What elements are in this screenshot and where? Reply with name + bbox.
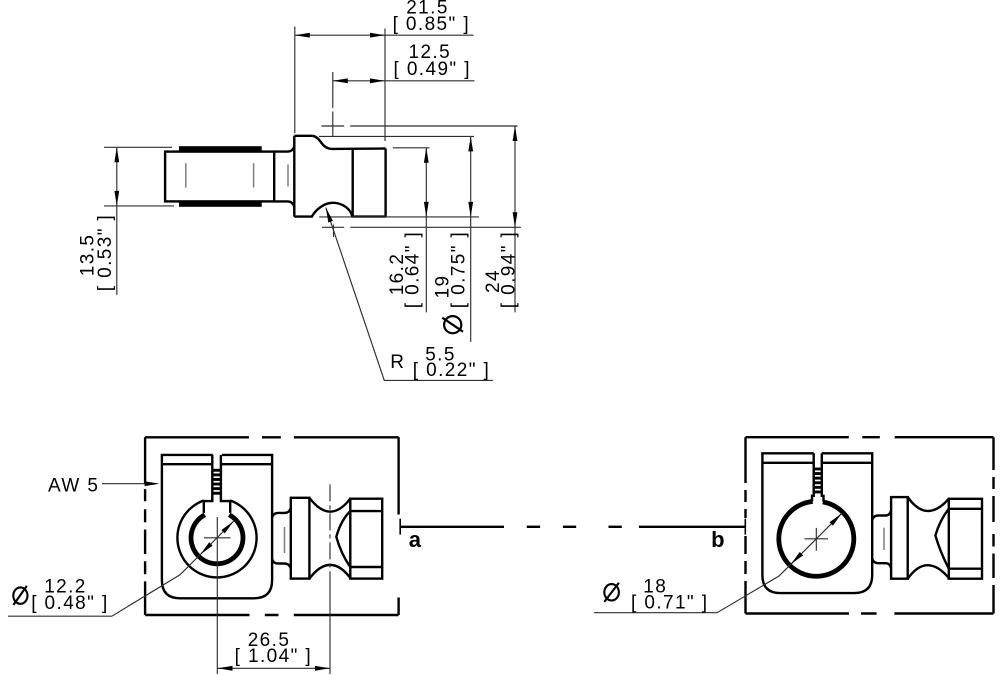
- top view: cam separator line: [352, 149, 354, 217]
- right view: phantom border right edge: [992, 437, 994, 613]
- section line a-b: dash 3: [609, 526, 622, 528]
- section line a-b: left tick: [399, 519, 401, 535]
- right view plug: neck top edge: [872, 511, 891, 520]
- right view: slot right wall: [822, 453, 824, 501]
- left view plug: vertical centerline (dashed): [329, 484, 331, 580]
- dim 16.2: dimension line: [425, 148, 427, 313]
- dim 24: down arrow: [513, 212, 518, 227]
- svg-text:a: a: [409, 527, 422, 552]
- right view plug: block chamfer line bottom: [949, 568, 982, 570]
- dim R5.5: arc centre tick: [333, 225, 335, 238]
- svg-text:[ 0.53" ]: [ 0.53" ]: [95, 214, 116, 291]
- dim 12.5: right arrow: [370, 78, 385, 83]
- top view: neck bottom edge: [274, 201, 294, 207]
- label AW 5: leader line: [102, 483, 152, 485]
- dim 18: upper-right arrow: [830, 513, 842, 525]
- dim 13.5: up arrow: [114, 147, 119, 162]
- left view: housing outline: [162, 455, 272, 598]
- dim 16.2/19: bottom extension line: [319, 216, 479, 218]
- right view: screw thread marks in slot: [814, 468, 820, 471]
- dim 16.2: up arrow: [424, 148, 429, 163]
- svg-text:[ 0.48" ]: [ 0.48" ]: [31, 593, 108, 614]
- top view: shaft surface tick 1: [185, 163, 187, 187]
- right view: phantom border top edge: [746, 436, 994, 438]
- svg-text:[ 0.49" ]: [ 0.49" ]: [393, 59, 470, 80]
- right view: bore center cross vertical: [815, 528, 817, 551]
- left view: slot right wall: [221, 455, 230, 513]
- dim R5.5: arrow: [326, 208, 333, 223]
- section line a-b: right solid segment: [639, 526, 745, 528]
- dim 19: down arrow: [468, 202, 473, 217]
- top view: knurl band bottom: [179, 201, 262, 206]
- dim 21.5: left extension line: [294, 27, 296, 134]
- left view: phantom border bottom edge: [145, 614, 399, 616]
- left view plug: neck bottom edge: [272, 559, 291, 568]
- svg-text:R: R: [390, 352, 405, 373]
- label AW 5: arrow: [145, 481, 160, 486]
- top view: flange top edge: [294, 135, 312, 137]
- right view plug: spool top concave arc: [908, 497, 949, 511]
- right view plug: right block: [949, 499, 982, 579]
- section line a-b: left solid segment: [400, 526, 504, 528]
- section line a-b: dash 1: [527, 526, 540, 528]
- dim 12.5: dimension line: [333, 80, 475, 82]
- right view: bore circle 18 (thick, gap at slot): [779, 501, 854, 576]
- top view: neck surface tick: [287, 165, 289, 187]
- svg-text:[ 0.94" ]: [ 0.94" ]: [499, 231, 520, 308]
- svg-text:[ 0.75" ]: [ 0.75" ]: [448, 231, 469, 308]
- right view plug: spool bottom concave arc: [908, 565, 949, 579]
- left view: slot left wall: [204, 455, 213, 513]
- top view: shaft body: [165, 152, 274, 202]
- diameter symbol for 16.2/19/24 group: [444, 316, 461, 333]
- left view plug: cam V-profile: [336, 511, 350, 567]
- left view: phantom border top edge: [145, 436, 399, 438]
- dim 24: bottom extension line: [322, 226, 521, 228]
- dim diameter 18: dimension line at 45 deg: [791, 513, 842, 564]
- dim 13.5: top extension line: [104, 146, 172, 148]
- dim 26.5: right arrow: [315, 666, 330, 671]
- top view: bottom edge with R5.5 groove arc: [294, 203, 385, 217]
- left view: phantom border right edge: [397, 437, 399, 615]
- dim 26.5: right extension line: [329, 580, 331, 674]
- left view: bore circle 12.2 (thick, gap at slot): [191, 515, 243, 564]
- dim 19: dimension line: [470, 136, 472, 342]
- dim 26.5: left arrow: [218, 666, 233, 671]
- dim diameter 12.2: dimension line at 45 deg: [200, 521, 233, 554]
- svg-text:AW 5: AW 5: [48, 476, 99, 497]
- left view plug: right block: [350, 499, 382, 579]
- svg-text:[ 0.85" ]: [ 0.85" ]: [393, 14, 470, 35]
- dim 16.2: top extension line: [393, 147, 430, 149]
- dim 12.2: upper-right arrow: [221, 521, 233, 533]
- section line a-b: dash 2: [563, 526, 576, 528]
- dim diameter 12.2: leader line: [8, 555, 200, 617]
- right view: housing lip line: [762, 462, 872, 464]
- dim 24: top extension line: [321, 125, 517, 127]
- svg-text:[ 0.71" ]: [ 0.71" ]: [631, 592, 708, 613]
- section line a-b: right tick: [744, 519, 746, 535]
- top view: knurl band top: [179, 146, 262, 151]
- dim 13.5: down arrow: [114, 191, 119, 206]
- right view plug: neck bottom edge: [872, 559, 891, 568]
- dim 21.5: dimension line: [295, 34, 474, 36]
- svg-text:[ 0.64" ]: [ 0.64" ]: [403, 231, 424, 308]
- right view plug: block chamfer line top: [949, 508, 982, 510]
- dim 24: up arrow: [513, 126, 518, 141]
- svg-text:[ 0.22" ]: [ 0.22" ]: [413, 360, 490, 381]
- dim 19: up arrow: [468, 136, 473, 151]
- dim 12.5: left extension line: [332, 72, 334, 137]
- left view plug: block chamfer line bottom: [350, 566, 382, 568]
- right view plug: neck surface tick: [883, 528, 885, 550]
- dim 24: dimension line: [514, 126, 516, 312]
- right view: bore center cross horizontal: [805, 538, 829, 540]
- dim diameter 18: value text: [604, 584, 619, 600]
- dim 12.5: left arrow: [333, 78, 348, 83]
- dim 13.5: dimension line: [116, 147, 118, 295]
- left view: screw thread marks in slot: [213, 469, 220, 472]
- svg-text:[ 1.04" ]: [ 1.04" ]: [235, 646, 312, 667]
- left view: bore center cross horizontal: [204, 537, 231, 539]
- left view plug: block chamfer line top: [350, 510, 382, 512]
- dim diameter 12.2: value text: [13, 587, 27, 603]
- left view plug: spool top concave arc: [309, 498, 350, 512]
- top view: neck top edge: [274, 146, 294, 152]
- left view: housing lip line: [162, 463, 272, 465]
- dim 16.2: down arrow: [424, 202, 429, 217]
- dim diameter 18: leader line: [594, 564, 791, 612]
- left view plug: spool bottom concave arc: [309, 565, 350, 579]
- dim 19: top extension line: [319, 135, 474, 137]
- left view plug: neck top edge: [272, 508, 291, 517]
- right view: housing outline: [762, 453, 872, 593]
- dim 26.5: dimension line: [218, 667, 331, 669]
- dim 18: lower-left arrow: [791, 552, 803, 564]
- top view: right end edge: [384, 149, 386, 217]
- left view: bore vertical centerline down to dim 26.5: [216, 517, 218, 674]
- top view: flange left edge: [293, 136, 295, 217]
- top view: flange-to-cam ogee curve and top flat: [312, 136, 385, 149]
- dim 21.5: left arrow: [295, 33, 310, 38]
- right view: phantom border bottom edge: [746, 612, 994, 614]
- dim 13.5: bottom extension line: [104, 205, 174, 207]
- svg-text:b: b: [711, 527, 724, 552]
- dim 21.5: right extension line: [384, 29, 386, 142]
- right view: slot left wall: [812, 453, 814, 501]
- dim R5.5: leader line: [326, 208, 493, 381]
- top view: shaft surface tick 2: [253, 163, 255, 187]
- left view: phantom border left edge: [144, 437, 146, 615]
- left view plug: flange: [291, 498, 310, 579]
- left view plug: neck surface tick: [284, 527, 286, 553]
- right view: phantom border left edge: [744, 437, 746, 613]
- left view: boss outer circle (gap at slot): [177, 500, 256, 577]
- dim 21.5: right arrow: [370, 33, 385, 38]
- dim 12.2: lower-left arrow: [200, 542, 212, 554]
- right view plug: cam V-profile: [935, 509, 948, 569]
- right view plug: flange: [891, 497, 908, 579]
